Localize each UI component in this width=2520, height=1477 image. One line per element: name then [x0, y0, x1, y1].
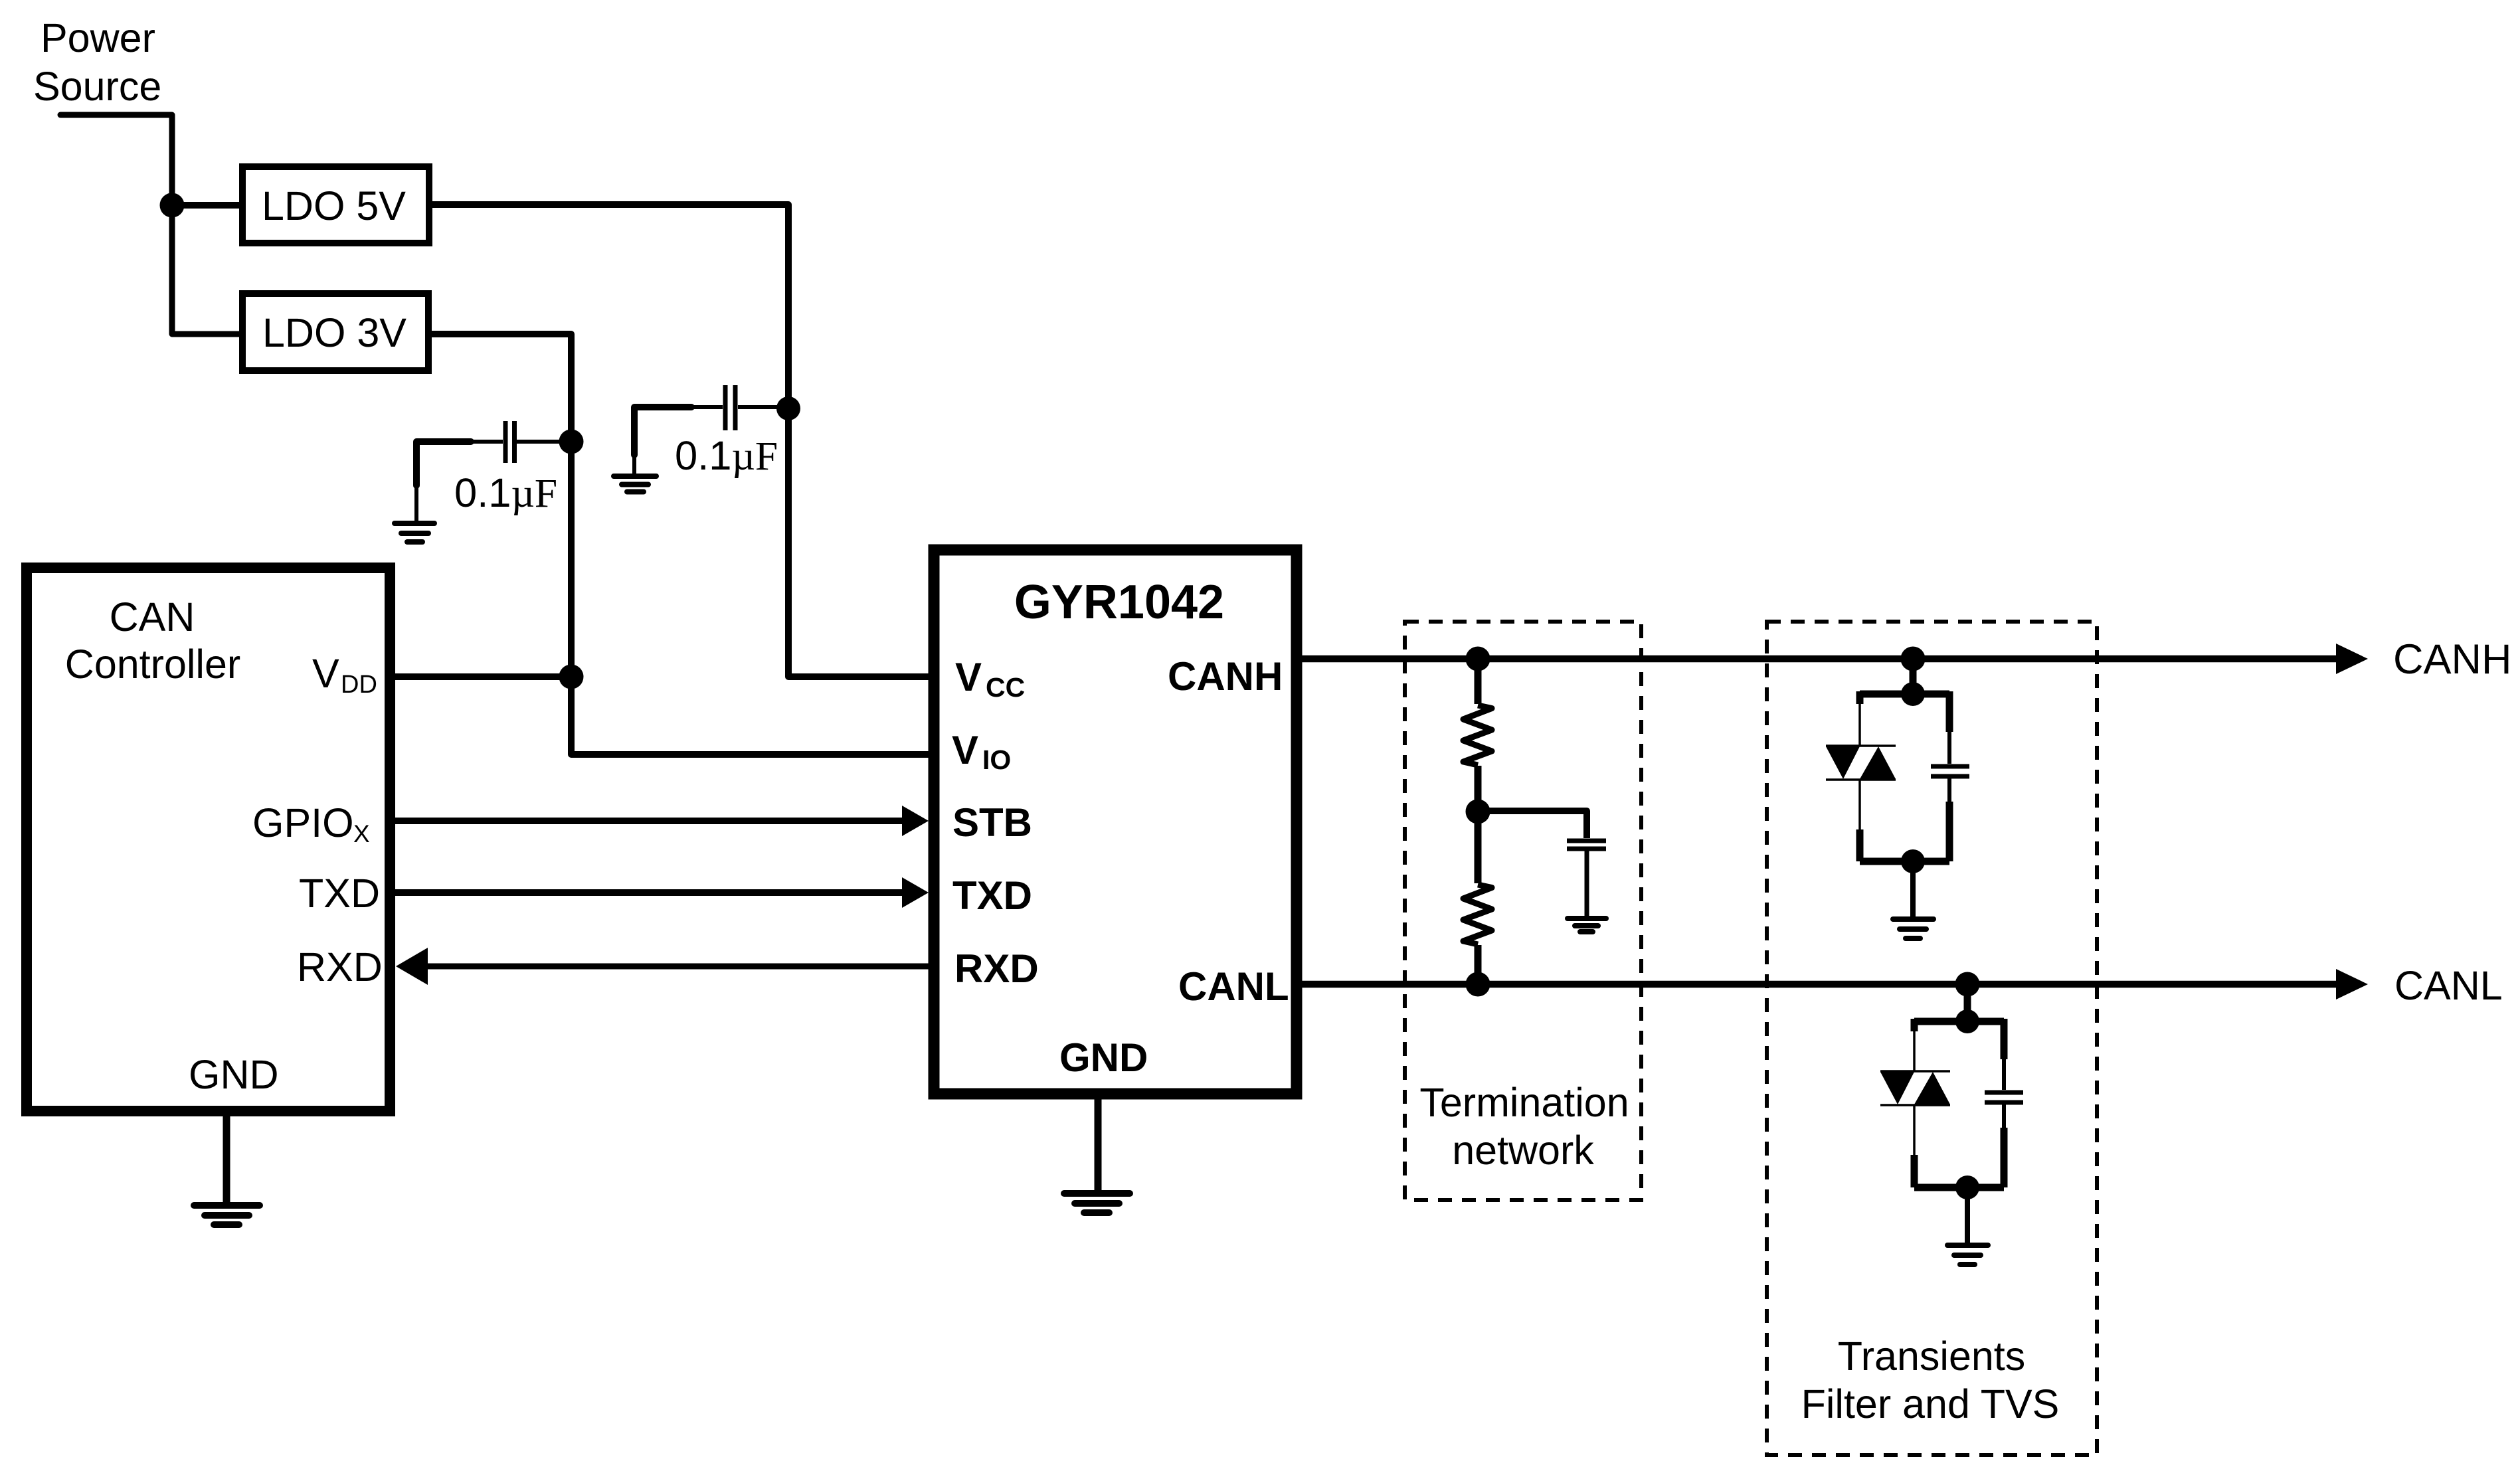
wire CAN controller GND stem: [223, 1112, 230, 1204]
wire TVS1 diode branch lower: [1858, 780, 1861, 831]
wire TVS1 ground stem: [1910, 861, 1916, 916]
svg-text:IO: IO: [982, 744, 1011, 775]
svg-text:RXD: RXD: [297, 944, 383, 990]
svg-text:CANH: CANH: [2393, 636, 2512, 683]
wire CANH to TVS1 top rail: [1910, 659, 1917, 694]
node junction CANH TVS branch: [1901, 647, 1926, 671]
svg-text:DD: DD: [341, 671, 377, 699]
wire TVS2 top rail: [1914, 1018, 2004, 1025]
pin VCC of GYR1042: [955, 655, 1025, 703]
wire TVS1 diode branch upper: [1856, 691, 1864, 704]
wire TVS1 bottom rail: [1860, 858, 1949, 865]
svg-text:STB: STB: [952, 800, 1032, 845]
tvs D2 bidirectional TVS diode: [1880, 1071, 1950, 1105]
svg-text:LDO 5V: LDO 5V: [262, 183, 406, 228]
wire R1 to center node: [1475, 766, 1482, 812]
svg-text:Power: Power: [41, 15, 155, 60]
svg-text:V: V: [955, 655, 982, 699]
wire 3V rail LDO3V output to VIO: [428, 334, 931, 754]
label transients filter and TVS: [1801, 1334, 2060, 1427]
ic U1 CAN Controller: [27, 568, 390, 1111]
ground for GYR1042: [1064, 1193, 1130, 1213]
svg-text:TXD: TXD: [299, 871, 380, 916]
tvs D1 bidirectional TVS diode: [1826, 746, 1896, 780]
wire CANL to TVS2 top rail: [1964, 984, 1971, 1021]
wire TVS2 diode branch upper: [1911, 1019, 1918, 1031]
capacitor C5 filter CANL: [1985, 1019, 2023, 1187]
ground for TVS1: [1893, 919, 1934, 938]
node junction TVS1 top rail: [1901, 682, 1925, 706]
ground for CAN controller: [194, 1205, 260, 1225]
wire CANL bus: [1297, 981, 2337, 988]
svg-text:0.1µF: 0.1µF: [675, 433, 778, 479]
svg-text:GYR1042: GYR1042: [1014, 576, 1224, 629]
resistor R1 termination upper: [1463, 705, 1492, 765]
ground for C1: [395, 523, 434, 542]
svg-text:GPIO: GPIO: [252, 800, 354, 845]
wire center node to R2: [1475, 812, 1482, 883]
pin GPIOx of CAN controller: [252, 800, 370, 847]
node junction C2 on 5V rail: [776, 396, 800, 420]
svg-text:CANL: CANL: [1178, 964, 1289, 1009]
arrowhead CANL: [2336, 969, 2368, 999]
svg-text:V: V: [312, 651, 339, 696]
svg-text:GND: GND: [1059, 1035, 1148, 1080]
label termination network: [1419, 1080, 1629, 1173]
wire RXD to RXD: [425, 964, 934, 970]
capacitor C3 termination: [1567, 841, 1606, 916]
wire TVS2 ground stem: [1965, 1187, 1970, 1243]
svg-text:Transients: Transients: [1838, 1334, 2026, 1379]
svg-text:Source: Source: [33, 64, 161, 109]
wire TVS1 top rail: [1860, 691, 1949, 698]
wire TVS2 diode branch lower: [1913, 1105, 1916, 1156]
ground for TVS2: [1947, 1245, 1988, 1264]
regulator LDO 5V: [242, 167, 429, 243]
svg-text:CANH: CANH: [1168, 654, 1283, 699]
svg-text:Filter and TVS: Filter and TVS: [1801, 1381, 2060, 1427]
node junction CANL termination: [1466, 972, 1490, 997]
resistor R2 termination lower: [1463, 885, 1492, 944]
node junction TVS2 bottom rail: [1955, 1175, 1979, 1199]
node junction TVS2 top rail: [1955, 1009, 1979, 1033]
capacitor C4 filter CANH: [1931, 691, 1969, 861]
wire GPIOx to STB: [393, 818, 903, 824]
svg-text:network: network: [1452, 1128, 1594, 1173]
svg-text:CANL: CANL: [2394, 963, 2503, 1008]
svg-text:GND: GND: [189, 1052, 279, 1097]
arrowhead into TXD: [902, 877, 929, 908]
svg-text:CAN: CAN: [110, 594, 195, 640]
svg-text:Termination: Termination: [1419, 1080, 1629, 1125]
node junction center of termination: [1466, 800, 1490, 824]
pin VIO of GYR1042: [952, 728, 1011, 775]
wire R2 to CANL: [1475, 945, 1482, 984]
svg-text:Controller: Controller: [65, 642, 240, 687]
node junction C1 on 3V rail: [559, 430, 584, 454]
pin VDD of CAN controller: [312, 651, 377, 699]
ground for C2: [614, 476, 656, 492]
svg-text:0.1µF: 0.1µF: [454, 470, 557, 516]
node junction CANH termination: [1466, 647, 1490, 671]
wire power source to LDO inputs: [60, 115, 242, 334]
dashed box termination network: [1405, 622, 1641, 1200]
wire VDD to 3V rail: [393, 673, 571, 680]
svg-text:RXD: RXD: [954, 946, 1039, 991]
node junction CANL TVS branch: [1955, 972, 1980, 997]
wire CANH junction to R1: [1475, 659, 1482, 704]
wire center node to C3: [1478, 811, 1587, 838]
arrowhead into STB: [902, 806, 929, 836]
ic U2 GYR1042 transceiver: [934, 550, 1297, 1094]
capacitor C2 0.1uF on 5V rail: [634, 385, 777, 474]
wire TXD to TXD: [393, 889, 903, 896]
arrowhead into RXD of CAN controller: [396, 948, 428, 985]
svg-text:X: X: [353, 820, 370, 847]
svg-text:V: V: [952, 728, 978, 772]
dashed box transients filter and TVS: [1767, 622, 2097, 1455]
node Power Source label: [33, 15, 161, 109]
node junction VDD on 3V rail: [559, 665, 584, 689]
ground for C3: [1568, 918, 1606, 932]
svg-text:LDO 3V: LDO 3V: [262, 310, 406, 355]
wire 5V rail LDO5V output to VCC: [429, 205, 931, 677]
node junction TVS1 bottom rail: [1901, 849, 1925, 873]
svg-text:TXD: TXD: [952, 873, 1032, 918]
arrowhead CANH: [2336, 644, 2368, 674]
regulator LDO 3V: [242, 294, 428, 371]
node junction power split: [160, 193, 185, 218]
capacitor C1 0.1uF on 3V rail: [416, 421, 561, 522]
wire CANH bus: [1297, 655, 2337, 663]
wire LDO 5V input: [172, 202, 242, 209]
svg-text:CC: CC: [986, 672, 1025, 703]
wire GYR1042 GND stem: [1095, 1096, 1102, 1192]
wire TVS2 bottom rail: [1914, 1184, 2004, 1191]
